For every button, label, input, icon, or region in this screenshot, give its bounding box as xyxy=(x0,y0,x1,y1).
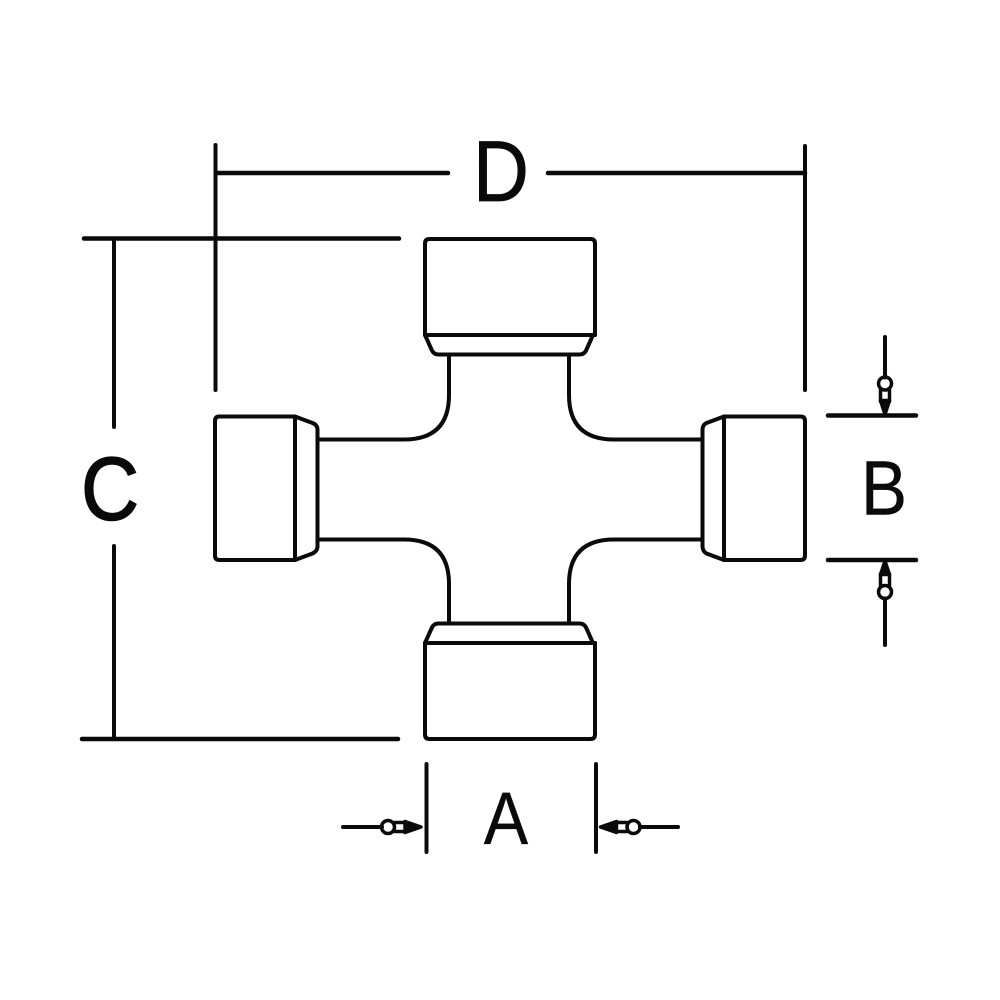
dimension B bottom arrow leader xyxy=(883,599,887,646)
right bearing cap chamfered nose xyxy=(703,417,725,561)
dimension A extension line right xyxy=(594,764,598,852)
dimension B top arrow glyph xyxy=(879,377,892,415)
top bearing cap chamfered nose xyxy=(425,335,593,355)
bottom bearing cap seam line xyxy=(425,641,595,645)
dimension D line left segment xyxy=(216,171,448,176)
label B xyxy=(861,451,907,528)
cross body upper-right fillet/neck xyxy=(569,356,702,440)
right bearing cap body xyxy=(724,417,805,561)
top bearing cap body xyxy=(425,239,595,335)
dimension C line upper segment xyxy=(112,240,116,427)
dimension C extension line bottom xyxy=(82,737,398,742)
dimension C extension line top xyxy=(84,236,399,241)
label D xyxy=(473,129,529,215)
dimension D line right segment xyxy=(548,171,805,176)
cross body lower-left fillet/neck xyxy=(318,540,449,623)
dimension A extension line left xyxy=(425,764,429,852)
dimension A right arrow leader xyxy=(640,825,678,829)
top bearing cap seam line xyxy=(425,333,595,337)
left bearing cap body xyxy=(215,417,295,561)
dimension A left arrow glyph xyxy=(382,821,422,834)
dimension C line lower segment xyxy=(112,546,116,739)
dimension B line top xyxy=(828,413,916,418)
dimension A right arrow glyph xyxy=(601,821,641,834)
bottom bearing cap body xyxy=(425,643,595,739)
left bearing cap seam line xyxy=(293,417,297,561)
dimension B bottom arrow glyph xyxy=(879,561,892,599)
dimension D extension line right xyxy=(803,146,807,390)
right bearing cap seam line xyxy=(722,417,726,561)
dimension B line bottom xyxy=(828,558,916,563)
dimension B top arrow leader xyxy=(883,337,887,378)
bottom bearing cap chamfered nose xyxy=(425,624,593,644)
cross body upper-left fillet/neck xyxy=(318,356,449,440)
left bearing cap chamfered nose xyxy=(295,417,318,561)
dimension D extension line left xyxy=(214,145,218,390)
label A xyxy=(484,782,528,856)
label C xyxy=(81,445,139,534)
dimension A left arrow leader xyxy=(343,825,382,829)
cross body lower-right fillet/neck xyxy=(569,540,702,623)
